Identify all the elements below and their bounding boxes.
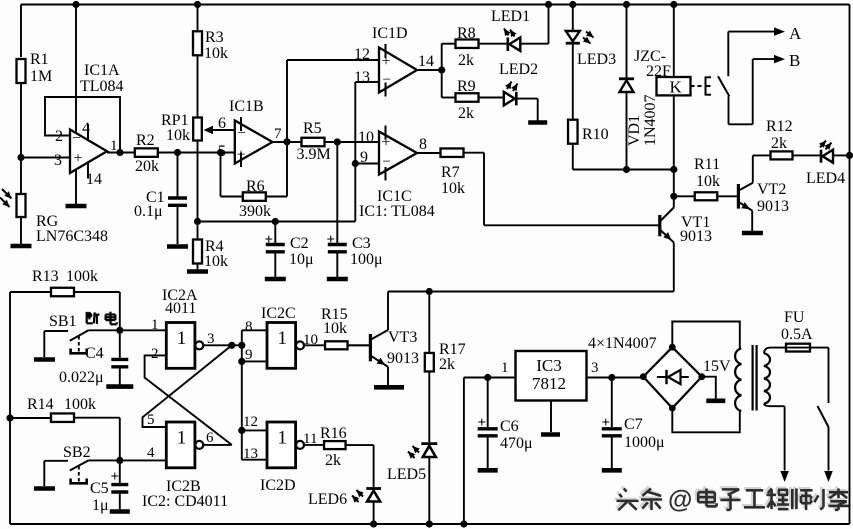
svg-text:1μ: 1μ [92, 497, 109, 514]
svg-text:9: 9 [245, 347, 253, 363]
svg-text:1N4007: 1N4007 [642, 94, 659, 146]
svg-text:2k: 2k [458, 52, 474, 69]
svg-text:1: 1 [501, 360, 509, 376]
svg-text:2k: 2k [771, 135, 787, 152]
svg-text:13: 13 [243, 446, 258, 462]
svg-text:IC3: IC3 [536, 356, 562, 375]
svg-text:6: 6 [206, 430, 214, 446]
svg-text:C6: C6 [500, 418, 519, 435]
svg-text:IC2D: IC2D [260, 477, 296, 494]
svg-text:1: 1 [278, 428, 288, 449]
svg-text:4: 4 [147, 445, 155, 461]
svg-text:1000μ: 1000μ [624, 434, 665, 451]
svg-text:14: 14 [86, 171, 102, 188]
svg-text:8: 8 [245, 319, 253, 335]
svg-text:15V: 15V [703, 358, 731, 375]
svg-text:5: 5 [147, 412, 155, 428]
svg-text:1: 1 [177, 428, 187, 449]
svg-text:B: B [789, 51, 800, 70]
svg-text:LED4: LED4 [806, 170, 845, 187]
svg-text:4: 4 [82, 120, 90, 137]
svg-text:R6: R6 [246, 178, 265, 195]
svg-text:100k: 100k [66, 268, 98, 285]
svg-text:9013: 9013 [757, 198, 789, 215]
svg-text:K: K [670, 78, 683, 97]
svg-text:9013: 9013 [387, 350, 419, 367]
svg-text:TL084: TL084 [80, 78, 124, 95]
svg-text:LED6: LED6 [308, 491, 347, 508]
svg-text:LED5: LED5 [387, 466, 426, 483]
svg-text:+: + [602, 415, 611, 431]
svg-text:LN76C348: LN76C348 [36, 228, 108, 245]
svg-text:7812: 7812 [532, 374, 566, 393]
svg-text:R3: R3 [205, 29, 224, 46]
svg-text:−: − [238, 126, 246, 142]
svg-text:IC2C: IC2C [261, 305, 296, 322]
svg-text:0.5A: 0.5A [781, 326, 813, 343]
svg-text:10k: 10k [204, 253, 228, 270]
svg-text:C7: C7 [624, 416, 643, 433]
svg-text:10: 10 [358, 129, 374, 146]
svg-text:R2: R2 [136, 132, 155, 149]
svg-text:C3: C3 [352, 235, 371, 252]
svg-text:2: 2 [151, 346, 159, 362]
svg-text:−: − [383, 154, 391, 170]
svg-text:100μ: 100μ [350, 251, 383, 268]
svg-text:+: + [74, 150, 83, 167]
svg-text:R1: R1 [30, 51, 49, 68]
svg-text:+: + [265, 232, 274, 248]
svg-text:C2: C2 [290, 235, 309, 252]
svg-text:R9: R9 [457, 78, 476, 95]
svg-text:9013: 9013 [680, 228, 712, 245]
svg-text:1: 1 [278, 328, 288, 349]
svg-text:7: 7 [274, 126, 282, 142]
svg-text:20k: 20k [135, 158, 159, 175]
svg-text:0.022μ: 0.022μ [59, 369, 104, 386]
svg-text:390k: 390k [239, 203, 271, 220]
svg-text:C5: C5 [90, 480, 109, 497]
svg-text:FU: FU [784, 309, 805, 326]
svg-text:−: − [73, 131, 81, 147]
svg-text:1: 1 [177, 328, 187, 349]
svg-text:13: 13 [354, 69, 370, 86]
svg-text:3.9M: 3.9M [297, 146, 331, 163]
svg-text:2k: 2k [325, 452, 341, 469]
svg-text:LED3: LED3 [577, 51, 616, 68]
svg-text:VD1: VD1 [626, 115, 643, 146]
svg-text:IC1D: IC1D [372, 25, 408, 42]
svg-text:12: 12 [243, 414, 258, 430]
svg-text:SB1: SB1 [49, 313, 77, 330]
svg-text:R11: R11 [694, 156, 720, 173]
svg-text:10k: 10k [696, 173, 720, 190]
svg-text:10k: 10k [441, 180, 465, 197]
svg-text:100k: 100k [64, 396, 96, 413]
svg-text:2: 2 [55, 128, 63, 145]
svg-text:10k: 10k [323, 320, 347, 337]
svg-text:10μ: 10μ [289, 251, 314, 268]
svg-text:IC1A: IC1A [84, 62, 120, 79]
svg-text:0.1μ: 0.1μ [134, 203, 163, 220]
svg-text:8: 8 [419, 136, 427, 153]
svg-text:IC1B: IC1B [229, 98, 264, 115]
svg-text:R13: R13 [32, 268, 59, 285]
svg-text:5: 5 [218, 143, 226, 160]
svg-text:R10: R10 [582, 126, 609, 143]
svg-text:9: 9 [360, 149, 368, 166]
svg-text:VT3: VT3 [388, 329, 417, 346]
svg-text:10k: 10k [204, 45, 228, 62]
svg-text:+: + [478, 415, 487, 431]
svg-text:+: + [111, 469, 120, 485]
svg-text:R5: R5 [303, 120, 322, 137]
svg-text:10k: 10k [166, 127, 190, 144]
svg-text:4×1N4007: 4×1N4007 [588, 335, 657, 352]
svg-text:2k: 2k [439, 356, 455, 373]
svg-text:IC1: TL084: IC1: TL084 [359, 203, 435, 220]
svg-text:LED1: LED1 [491, 8, 530, 25]
svg-text:C4: C4 [85, 345, 104, 362]
svg-text:R14: R14 [27, 396, 54, 413]
svg-text:14: 14 [418, 53, 434, 70]
svg-text:A: A [789, 24, 802, 43]
svg-text:−: − [383, 72, 391, 88]
svg-text:2k: 2k [458, 105, 474, 122]
svg-text:470μ: 470μ [500, 435, 533, 452]
svg-text:12: 12 [354, 46, 370, 63]
svg-text:+: + [382, 53, 391, 70]
svg-text:SB2: SB2 [63, 444, 91, 461]
svg-text:3: 3 [591, 360, 599, 376]
svg-text:1: 1 [110, 138, 118, 154]
svg-text:+: + [382, 134, 391, 151]
svg-text:VT2: VT2 [757, 181, 786, 198]
svg-text:3: 3 [54, 152, 62, 169]
svg-text:1M: 1M [30, 68, 52, 85]
svg-text:+: + [327, 232, 336, 248]
svg-text:R16: R16 [320, 425, 347, 442]
svg-text:R8: R8 [457, 25, 476, 42]
svg-text:LED2: LED2 [499, 61, 538, 78]
svg-text:4011: 4011 [165, 300, 196, 317]
svg-text:IC2: CD4011: IC2: CD4011 [142, 493, 228, 510]
svg-text:1: 1 [151, 317, 159, 333]
svg-text:R12: R12 [766, 118, 793, 135]
svg-text:@: @ [668, 486, 692, 514]
svg-text:+: + [237, 147, 246, 164]
svg-text:R7: R7 [441, 164, 460, 181]
